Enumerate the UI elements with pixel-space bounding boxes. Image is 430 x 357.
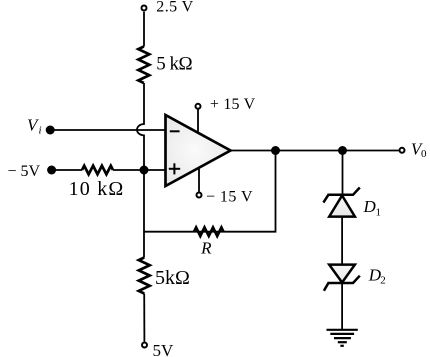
svg-text:0: 0 (421, 148, 427, 160)
wire to non-inverting input (113, 169, 166, 171)
node -5V (47, 166, 56, 175)
wire to zener D1 (342, 151, 344, 195)
svg-text:10 kΩ: 10 kΩ (69, 178, 125, 200)
wire (143, 12, 145, 47)
svg-text:− 15 V: − 15 V (206, 189, 253, 206)
wire Vi to inverting input (50, 129, 165, 131)
svg-text:2: 2 (380, 274, 386, 286)
zener D2 cathode bar (324, 276, 360, 291)
wire with hop over Vi line (137, 83, 144, 258)
resistor 5 kOhm (top) (138, 47, 149, 84)
node feedback tap (271, 146, 280, 155)
ground (327, 329, 358, 331)
terminal 5V (142, 343, 147, 348)
feedback wire (144, 151, 276, 232)
wire between zeners (341, 217, 343, 265)
minus sign (inverting input) (170, 130, 180, 132)
+15V supply stub (197, 110, 199, 134)
op-amp U1 (166, 115, 231, 186)
terminal V0 (400, 148, 405, 153)
zener D1 cathode bar (323, 188, 359, 203)
terminal +15V (196, 104, 201, 109)
svg-text:D: D (363, 197, 377, 216)
svg-text:5V: 5V (153, 341, 175, 357)
node Vi (46, 126, 55, 135)
resistor 10 kOhm (82, 166, 113, 175)
svg-text:1: 1 (376, 206, 382, 218)
svg-text:2.5 V: 2.5 V (156, 0, 193, 16)
junction node (divider to + input) (140, 166, 149, 175)
svg-text:− 5V: − 5V (8, 163, 41, 180)
node zener branch tap (338, 146, 347, 155)
wire (143, 294, 145, 342)
svg-text:5 kΩ: 5 kΩ (156, 54, 192, 75)
wire to ground (341, 283, 343, 330)
svg-text:i: i (39, 124, 42, 136)
resistor R (feedback) (194, 227, 224, 236)
resistor 5kOhm (bottom) (139, 258, 150, 294)
plus sign (non-inverting input) (169, 168, 180, 170)
wire (52, 169, 82, 171)
output wire (231, 150, 399, 152)
zener D2 triangle (329, 265, 355, 283)
-15V supply stub (198, 168, 200, 192)
svg-text:R: R (200, 238, 212, 257)
svg-text:+ 15 V: + 15 V (210, 96, 256, 113)
terminal 2.5 V (142, 6, 147, 11)
terminal -15V (197, 193, 202, 198)
zener D1 triangle (329, 196, 355, 217)
svg-text:5kΩ: 5kΩ (155, 267, 190, 289)
